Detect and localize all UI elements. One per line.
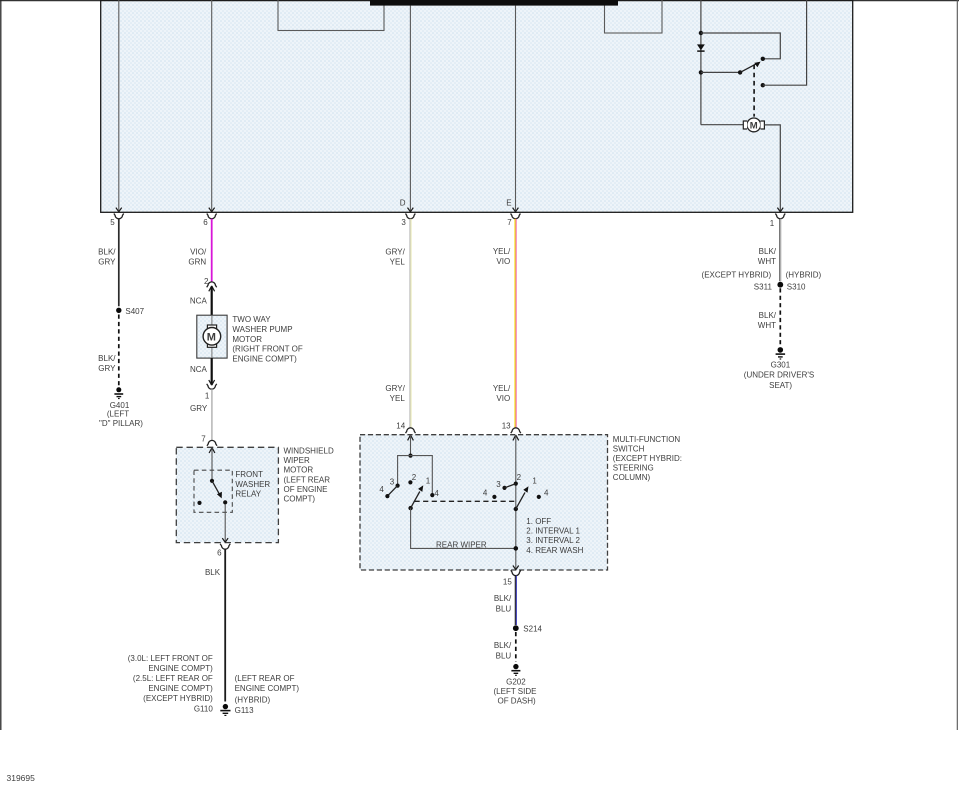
- node contact B: [761, 57, 765, 61]
- svg-text:GRY/: GRY/: [385, 247, 405, 256]
- connector 1 cup: [207, 384, 217, 389]
- svg-text:OF ENGINE: OF ENGINE: [284, 485, 328, 494]
- wire pin 6 inside box: [211, 0, 213, 212]
- svg-text:4. REAR WASH: 4. REAR WASH: [526, 546, 583, 555]
- svg-text:YEL/: YEL/: [493, 384, 511, 393]
- svg-text:BLK/: BLK/: [759, 311, 777, 320]
- wire YEL/VIO pin 7 to MFS 13: [514, 219, 516, 428]
- svg-text:MULTI-FUNCTION: MULTI-FUNCTION: [613, 435, 681, 444]
- node junction lower: [699, 70, 703, 74]
- svg-text:(UNDER DRIVER'S: (UNDER DRIVER'S: [744, 371, 814, 380]
- connector cup pin 1: [775, 214, 785, 219]
- connector cup pin 5: [114, 214, 124, 219]
- page frame left border: [0, 0, 2, 730]
- svg-text:2: 2: [517, 473, 522, 482]
- contact 3 left: [396, 484, 400, 488]
- svg-text:4: 4: [483, 489, 488, 498]
- wire relay contact to pin 6 exit: [224, 504, 226, 542]
- svg-text:(EXCEPT HYBRID): (EXCEPT HYBRID): [143, 694, 213, 703]
- right pole arm with arrow: [516, 492, 525, 509]
- relay arm with arrow: [212, 481, 220, 495]
- svg-text:(RIGHT FRONT OF: (RIGHT FRONT OF: [232, 345, 302, 354]
- svg-text:S214: S214: [523, 625, 542, 634]
- node contact E2: [761, 83, 765, 87]
- washer pump motor M brushes: [207, 325, 216, 329]
- svg-text:YEL/: YEL/: [493, 247, 511, 256]
- svg-text:(EXCEPT HYBRID:: (EXCEPT HYBRID:: [613, 454, 682, 463]
- wire GRY to wiper motor: [211, 389, 213, 441]
- svg-text:VIO: VIO: [496, 394, 510, 403]
- wire pin D/3 inside box: [409, 6, 411, 212]
- svg-text:13: 13: [502, 421, 511, 430]
- svg-text:14: 14: [396, 421, 405, 430]
- connector cup pin 6: [207, 214, 217, 219]
- connector 2 cup: [207, 282, 217, 287]
- right pole feed wire: [515, 435, 517, 569]
- svg-text:3. INTERVAL 2: 3. INTERVAL 2: [526, 536, 580, 545]
- connector 14 cup: [406, 428, 416, 433]
- wire junction to pivot: [701, 71, 740, 73]
- svg-text:S407: S407: [125, 307, 144, 316]
- svg-text:WHT: WHT: [758, 257, 776, 266]
- svg-text:M: M: [750, 121, 758, 132]
- svg-text:2. INTERVAL 1: 2. INTERVAL 1: [526, 527, 580, 536]
- svg-text:WASHER PUMP: WASHER PUMP: [232, 325, 292, 334]
- svg-text:NCA: NCA: [190, 296, 208, 305]
- svg-text:SWITCH: SWITCH: [613, 445, 645, 454]
- svg-text:BLK/: BLK/: [98, 354, 116, 363]
- wire motor to pin 1: [764, 125, 780, 212]
- wire VIO/GRN from pin 6: [211, 219, 213, 282]
- svg-text:BLU: BLU: [496, 604, 512, 613]
- svg-text:4: 4: [379, 485, 384, 494]
- contact 4 right outer: [537, 495, 541, 499]
- svg-text:G202: G202: [506, 678, 526, 687]
- svg-text:"D" PILLAR): "D" PILLAR): [99, 419, 143, 428]
- entry arrow pin 7: [209, 448, 215, 453]
- ground G401: [116, 387, 121, 392]
- rear wiper/washer module box (large blue component, cut off at top): [101, 0, 853, 212]
- connector cup pin 3: [406, 214, 416, 219]
- wire dashed BLK/BLU to ground: [515, 632, 517, 662]
- node rear wiper junction: [514, 546, 519, 551]
- svg-text:7: 7: [507, 218, 512, 227]
- right pole pivot: [514, 507, 518, 511]
- svg-text:YEL: YEL: [390, 394, 406, 403]
- connector 15 cup: [511, 570, 521, 575]
- connector 13 cup: [511, 428, 521, 433]
- svg-text:(EXCEPT HYBRID): (EXCEPT HYBRID): [702, 271, 772, 280]
- contact 3 right: [502, 486, 506, 490]
- link 3-2 right: [505, 484, 516, 488]
- svg-text:S310: S310: [787, 283, 806, 292]
- svg-text:1: 1: [426, 477, 431, 486]
- relay contact node: [223, 500, 227, 504]
- svg-text:(LEFT SIDE: (LEFT SIDE: [494, 687, 537, 696]
- connector 6 cup: [220, 544, 230, 549]
- wire to park switch contact: [701, 33, 780, 59]
- svg-text:4: 4: [434, 489, 439, 498]
- exit arrow pin 6: [222, 538, 228, 542]
- svg-text:WIPER: WIPER: [284, 456, 310, 465]
- svg-text:G113: G113: [235, 706, 255, 715]
- two way washer pump motor box: [197, 315, 227, 358]
- inner relay rect (cut off at top): [605, 0, 663, 33]
- svg-text:GRY: GRY: [98, 364, 116, 373]
- svg-text:M: M: [207, 332, 216, 344]
- box top cut line: [101, 0, 853, 2]
- connector 7 cup: [207, 440, 217, 445]
- wire to relay: [211, 448, 213, 481]
- wire GRY/YEL pin 3 to MFS 14: [409, 219, 411, 428]
- arrow pin 3: [408, 208, 414, 212]
- wire dashed BLK/WHT to ground: [779, 288, 781, 346]
- rear wiper wire: [411, 508, 516, 548]
- dashed actuator link to motor: [753, 65, 755, 117]
- svg-text:VIO/: VIO/: [190, 247, 207, 256]
- svg-text:BLK: BLK: [205, 568, 221, 577]
- contact 2 right: [514, 482, 518, 486]
- arrow pin 5: [116, 208, 122, 212]
- svg-text:S311: S311: [754, 283, 773, 292]
- node junction top: [699, 31, 703, 35]
- svg-text:3: 3: [390, 478, 395, 487]
- svg-text:4: 4: [544, 489, 549, 498]
- wire contact to run feed: [763, 0, 807, 85]
- wire pin 5 inside box: [118, 0, 120, 212]
- arrow pin 6: [209, 208, 215, 212]
- ground G202: [513, 664, 518, 669]
- svg-text:BLK/: BLK/: [98, 247, 116, 256]
- page frame right border: [956, 0, 958, 730]
- ground G301: [778, 347, 784, 353]
- svg-text:RELAY: RELAY: [235, 490, 261, 499]
- svg-text:(LEFT REAR: (LEFT REAR: [284, 475, 331, 484]
- wire NCA below washer motor: [211, 358, 213, 385]
- left pole branches: [398, 456, 433, 496]
- entry arrow 14: [408, 435, 414, 440]
- wire BLK/BLU to S214: [514, 576, 516, 625]
- splice S214: [513, 625, 519, 631]
- svg-text:ENGINE COMPT): ENGINE COMPT): [148, 664, 213, 673]
- svg-text:(LEFT: (LEFT: [107, 410, 129, 419]
- park switch arm with arrow: [740, 64, 757, 73]
- connector 2 arrow: [209, 286, 215, 291]
- svg-text:1: 1: [532, 476, 537, 485]
- svg-text:7: 7: [201, 435, 206, 444]
- front washer relay dashed box: [194, 470, 232, 512]
- relay common node: [210, 479, 214, 483]
- contact 4 left outer: [385, 494, 389, 498]
- svg-text:COLUMN): COLUMN): [613, 473, 651, 482]
- svg-text:6: 6: [203, 218, 208, 227]
- left pole pivot: [408, 506, 412, 510]
- arrow pin 1: [777, 208, 783, 212]
- diode D1: [697, 44, 705, 50]
- left pole arm with arrow: [411, 492, 420, 509]
- contact 4 left inner: [430, 493, 434, 497]
- connector cup pin 7: [511, 214, 521, 219]
- svg-text:6: 6: [217, 549, 222, 558]
- svg-text:1. OFF: 1. OFF: [526, 517, 551, 526]
- wire NCA to washer motor: [211, 287, 213, 316]
- svg-text:REAR WIPER: REAR WIPER: [436, 540, 487, 549]
- svg-text:VIO: VIO: [496, 257, 510, 266]
- exit arrow 15: [513, 566, 519, 570]
- svg-text:(3.0L: LEFT FRONT OF: (3.0L: LEFT FRONT OF: [128, 654, 213, 663]
- windshield wiper motor dashed box: [176, 447, 278, 542]
- splice S407: [116, 308, 121, 313]
- arrow pin 7: [513, 208, 519, 212]
- svg-text:SEAT): SEAT): [769, 381, 792, 390]
- svg-text:ENGINE COMPT): ENGINE COMPT): [148, 684, 213, 693]
- svg-text:BLK/: BLK/: [759, 247, 777, 256]
- svg-text:WINDSHIELD: WINDSHIELD: [284, 447, 334, 456]
- multi-function switch dashed box: [360, 435, 608, 570]
- contact 2 left: [408, 480, 412, 484]
- svg-text:(HYBRID): (HYBRID): [235, 696, 271, 705]
- svg-text:GRY: GRY: [98, 258, 116, 267]
- svg-text:YEL: YEL: [390, 258, 406, 267]
- svg-text:COMPT): COMPT): [284, 495, 316, 504]
- svg-text:G110: G110: [194, 705, 214, 714]
- arm 3-4 left: [387, 486, 397, 497]
- svg-text:3: 3: [401, 218, 406, 227]
- svg-text:G301: G301: [771, 361, 791, 370]
- ground G110/G113: [223, 704, 228, 709]
- svg-text:(LEFT REAR OF: (LEFT REAR OF: [235, 674, 295, 683]
- svg-text:ENGINE COMPT): ENGINE COMPT): [235, 684, 300, 693]
- node pivot: [738, 70, 742, 74]
- contact 4 right inner: [492, 495, 496, 499]
- relay unused contact: [197, 501, 201, 505]
- svg-text:GRY: GRY: [190, 404, 208, 413]
- svg-text:(HYBRID): (HYBRID): [786, 271, 822, 280]
- wire dashed BLK/GRY to ground: [118, 315, 120, 386]
- svg-text:BLK/: BLK/: [494, 594, 512, 603]
- svg-text:FRONT: FRONT: [235, 470, 263, 479]
- svg-text:2: 2: [204, 277, 209, 286]
- svg-text:ENGINE COMPT): ENGINE COMPT): [232, 354, 297, 363]
- entry arrow 13: [513, 435, 519, 440]
- internal motor circuit: feed wire: [700, 0, 702, 125]
- svg-text:D: D: [400, 198, 406, 207]
- svg-text:MOTOR: MOTOR: [232, 335, 262, 344]
- svg-text:G401: G401: [110, 401, 130, 410]
- wire BLK/GRY from pin 5: [118, 219, 120, 307]
- mechanical link dashed: [415, 500, 517, 502]
- svg-text:GRN: GRN: [188, 258, 206, 267]
- svg-text:BLK/: BLK/: [494, 641, 512, 650]
- wire BLK to ground: [224, 549, 226, 702]
- wire pin E/7 inside box: [515, 6, 517, 212]
- svg-text:OF DASH): OF DASH): [497, 697, 536, 706]
- black header bar: [370, 0, 618, 6]
- wiper motor M inside box: [701, 124, 743, 126]
- svg-text:1: 1: [205, 391, 210, 400]
- left pole feed wire: [410, 435, 412, 456]
- svg-text:WASHER: WASHER: [235, 480, 270, 489]
- svg-text:STEERING: STEERING: [613, 464, 654, 473]
- svg-text:TWO WAY: TWO WAY: [232, 315, 271, 324]
- inner connector rect (cut off at top): [278, 0, 384, 31]
- svg-text:3: 3: [496, 480, 501, 489]
- node T: [408, 454, 412, 458]
- page frame top border: [0, 0, 959, 2]
- svg-text:GRY/: GRY/: [385, 384, 405, 393]
- svg-text:WHT: WHT: [758, 321, 776, 330]
- svg-text:(2.5L: LEFT REAR OF: (2.5L: LEFT REAR OF: [133, 674, 213, 683]
- svg-text:BLU: BLU: [496, 651, 512, 660]
- washer pump motor M: [203, 328, 221, 346]
- svg-text:2: 2: [412, 473, 417, 482]
- connector 1 arrow: [209, 380, 215, 385]
- svg-text:NCA: NCA: [190, 365, 208, 374]
- svg-text:E: E: [506, 198, 511, 207]
- svg-text:5: 5: [110, 218, 115, 227]
- wire BLK/WHT pin 1 to S311: [779, 219, 781, 282]
- svg-text:319695: 319695: [7, 773, 36, 783]
- svg-text:15: 15: [503, 577, 512, 586]
- svg-text:MOTOR: MOTOR: [284, 466, 314, 475]
- svg-text:1: 1: [770, 219, 775, 228]
